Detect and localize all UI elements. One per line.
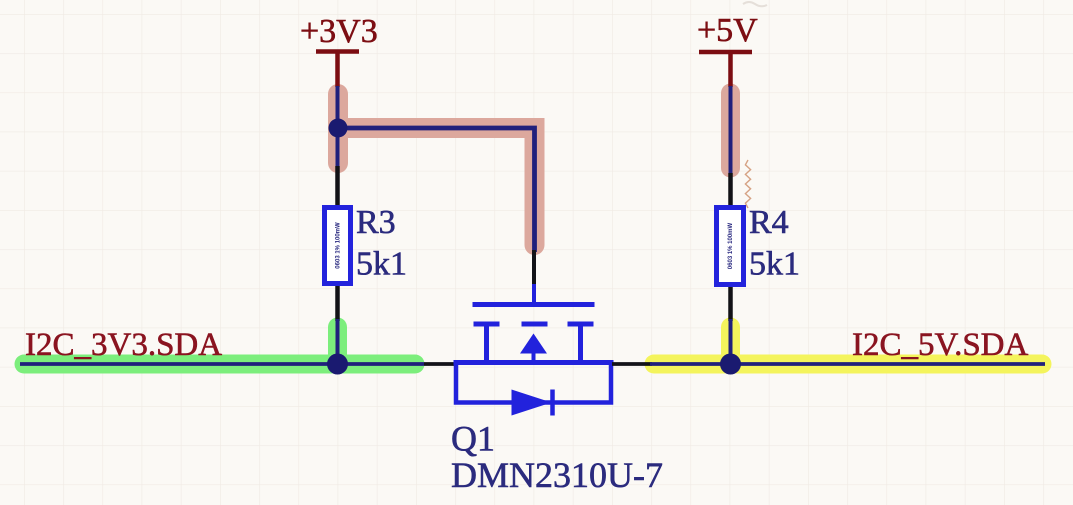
pin R3.1 (top) [335, 166, 340, 206]
net highlight +5V (salmon selection) [721, 93, 740, 168]
wire gate feed lower dark segment [532, 250, 536, 286]
wire I2C_3V3.SDA horizontal [20, 362, 424, 366]
svg-text:I2C_3V3.SDA: I2C_3V3.SDA [25, 327, 222, 363]
wire I2C_5V.SDA dark segment from Q1 [612, 362, 652, 366]
wire R4 to SDA (navy in yellow stub) [729, 319, 733, 364]
wire I2C_5V.SDA horizontal [650, 362, 1045, 366]
wire +3V3 vertical to R3 [336, 86, 340, 166]
net highlight I2C_3V3.SDA (green) [24, 327, 415, 364]
pin Q1 gate [532, 284, 536, 303]
svg-text:I2C_5V.SDA: I2C_5V.SDA [852, 327, 1029, 363]
pin R4.2 (bottom) [728, 287, 733, 321]
svg-text:R3: R3 [356, 204, 396, 241]
pin R4.1 (top) [728, 173, 733, 206]
svg-text:R4: R4 [749, 204, 789, 241]
junction node +3V3 / R3 / gate [329, 119, 348, 138]
wire +3V3 to Q1 gate (L-shaped) [338, 128, 535, 252]
wire I2C_3V3.SDA dark segment to Q1 [424, 362, 456, 366]
ERC marker squiggle at R4.1 [745, 160, 750, 208]
svg-text:0603 1% 100mW: 0603 1% 100mW [728, 222, 734, 269]
junction node I2C_5V.SDA / R4 / Q1 [720, 354, 741, 375]
transistor Q1 (MOSFET body) [454, 305, 614, 416]
net highlight +3V3 (salmon selection, vertical + wire to gate) [338, 94, 535, 245]
svg-text:+3V3: +3V3 [300, 13, 378, 50]
svg-text:Q1: Q1 [451, 419, 495, 459]
faint video artifact above +5V [743, 2, 767, 6]
resistor R4 body [717, 208, 744, 285]
svg-text:0603 1% 100mW: 0603 1% 100mW [336, 222, 342, 269]
net highlight I2C_5V.SDA (yellow) [654, 327, 1042, 364]
junction node I2C_3V3.SDA / R3 / Q1 [327, 354, 348, 375]
svg-text:+5V: +5V [697, 12, 758, 49]
resistor R3 body [325, 208, 351, 284]
pin R3.2 (bottom) [335, 285, 340, 321]
svg-text:5k1: 5k1 [749, 246, 800, 283]
svg-text:DMN2310U-7: DMN2310U-7 [451, 455, 663, 495]
wire +5V vertical to R4 [729, 86, 733, 173]
wire R3 to SDA (navy in green stub) [336, 319, 340, 364]
svg-text:5k1: 5k1 [356, 246, 407, 283]
power symbol +3V3 (bar and stem) [316, 52, 359, 88]
transistor Q1 body diode triangle [512, 390, 552, 416]
power symbol +5V (bar and stem) [699, 52, 752, 87]
transistor Q1 body arrow [520, 334, 547, 354]
